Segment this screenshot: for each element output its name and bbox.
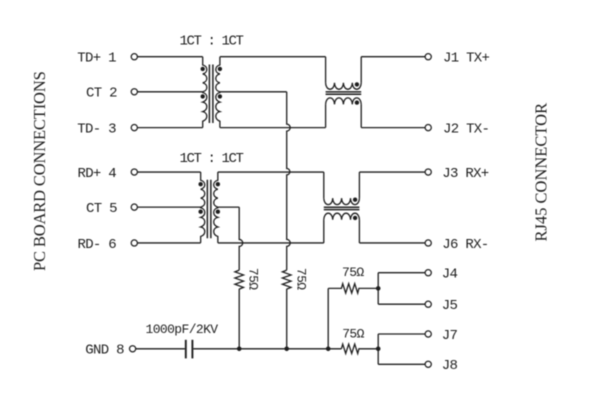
T1 primary phase dot (top) <box>201 67 205 71</box>
L2 top-left vertical <box>323 172 325 198</box>
terminal circles <box>130 54 432 368</box>
svg-text:1CT : 1CT: 1CT : 1CT <box>180 34 244 50</box>
wire choke L1 bottom-right to J2 <box>361 127 425 129</box>
wire CT pin5 to T2 primary center tap <box>137 206 200 208</box>
L1 top winding <box>326 83 362 90</box>
svg-text:TD+ 1: TD+ 1 <box>77 51 116 67</box>
svg-text:TD- 3: TD- 3 <box>77 121 116 137</box>
L1 bottom-right vertical <box>360 104 362 127</box>
junction R3/J4-J5 bracket <box>376 286 381 291</box>
terminal J6 <box>425 240 431 246</box>
T2 primary phase dot (top) <box>198 182 202 186</box>
resistor R4 75ohm horizontal on GND rail <box>341 344 378 353</box>
T1 core <box>209 65 213 124</box>
junction dots <box>237 286 381 351</box>
svg-text:1CT : 1CT: 1CT : 1CT <box>180 151 244 167</box>
T2 secondary phase dot (lower section) <box>216 210 220 214</box>
terminal pin3 <box>131 125 137 131</box>
wire capacitor C1 to GND rail junctions <box>193 348 341 350</box>
svg-text:RJ45 CONNECTOR: RJ45 CONNECTOR <box>531 103 550 242</box>
wire R2 bottom to GND rail <box>238 289 240 349</box>
T2 primary winding <box>201 172 205 243</box>
wire CT pin2 to T1 primary center tap <box>137 91 202 93</box>
resistor R1 75ohm vertical zigzag <box>282 270 291 289</box>
L1 bottom winding phase dot <box>355 100 359 104</box>
wire R3 left vertical to GND rail <box>327 288 329 348</box>
wire T1 secondary top to choke L1 top-left <box>220 56 326 58</box>
L1 top-right vertical <box>360 57 362 83</box>
resistor R3 75ohm horizontal with leads <box>328 284 378 293</box>
svg-text:75Ω: 75Ω <box>294 268 309 290</box>
terminal pin5 <box>131 204 137 210</box>
wire T1 secondary center tap right <box>220 91 287 93</box>
wire bracket J7-J8 <box>377 334 379 364</box>
svg-text:J1 TX+: J1 TX+ <box>443 51 490 67</box>
svg-text:J3 RX+: J3 RX+ <box>442 166 489 182</box>
terminal pin8 GND <box>130 346 136 352</box>
svg-text:J6 RX-: J6 RX- <box>442 237 488 253</box>
terminal pin2 <box>131 89 137 95</box>
terminal J8 <box>425 361 431 367</box>
wire GND pin8 to capacitor C1 <box>136 348 185 350</box>
L2 core <box>324 207 360 209</box>
terminal pin4 <box>131 169 137 175</box>
T1 secondary phase dot (top) <box>218 67 222 71</box>
junction R4/J7-J8 bracket <box>376 347 381 352</box>
L2 bottom winding phase dot <box>353 216 357 220</box>
wire RD+ pin4 to T2 primary top <box>137 171 200 173</box>
wire T2 secondary center tap right <box>218 206 239 208</box>
T2 primary phase dot (lower section) <box>198 210 202 214</box>
common-mode choke L1 <box>326 57 362 128</box>
svg-text:J4: J4 <box>442 267 458 283</box>
svg-text:GND 8: GND 8 <box>85 343 124 359</box>
L2 top winding <box>324 198 360 205</box>
wire choke L1 top-right to J1 <box>361 56 425 58</box>
L1 top-left vertical <box>325 57 327 83</box>
terminal J7 <box>425 331 431 337</box>
svg-text:PC BOARD CONNECTIONS: PC BOARD CONNECTIONS <box>30 71 49 271</box>
transformer T1 <box>203 57 220 128</box>
L2 bottom-right vertical <box>358 220 360 243</box>
svg-text:RD- 6: RD- 6 <box>78 237 117 253</box>
L1 top winding phase dot <box>355 82 359 86</box>
wire T2 secondary top to choke L2 top-left <box>218 171 324 173</box>
L2 top-right vertical <box>358 172 360 198</box>
wire J4 stub <box>378 272 425 274</box>
T1 primary winding <box>203 57 207 128</box>
terminal J2 <box>425 125 431 131</box>
wire bracket J4-J5 <box>377 273 379 305</box>
terminal J3 <box>425 169 431 175</box>
capacitor C1 1000pF/2KV plates <box>186 340 193 359</box>
L1 bottom winding <box>326 98 362 105</box>
wire T1 center-tap vertical with hops <box>287 92 291 270</box>
wire J7 stub <box>378 333 425 335</box>
svg-text:J8: J8 <box>442 358 458 374</box>
T1 secondary phase dot (lower section) <box>218 94 222 98</box>
junction R1/GND <box>284 347 289 352</box>
terminal J1 <box>425 54 431 60</box>
junction R2/GND <box>237 347 242 352</box>
resistor R2 75ohm vertical zigzag <box>235 270 244 289</box>
wire choke L2 top-right to J3 <box>359 171 425 173</box>
wire T2 secondary bottom to choke L2 bottom-left <box>218 242 324 244</box>
svg-text:J7: J7 <box>442 328 458 344</box>
common-mode choke L2 <box>324 172 360 243</box>
terminal J4 <box>425 270 431 276</box>
wire J5 stub <box>378 303 425 305</box>
svg-text:1000pF/2KV: 1000pF/2KV <box>146 322 219 337</box>
svg-text:J2 TX-: J2 TX- <box>443 121 489 137</box>
terminal pin1 <box>131 54 137 60</box>
wire T1 secondary bottom to choke L1 bottom-left <box>220 127 326 129</box>
T1 secondary winding <box>216 57 220 128</box>
terminal J5 <box>425 301 431 307</box>
wire RD- pin6 to T2 primary bottom <box>137 242 200 244</box>
wire TD- pin3 to T1 primary bottom <box>137 127 202 129</box>
wire TD+ pin1 to T1 primary top <box>137 56 202 58</box>
svg-text:J5: J5 <box>442 298 458 314</box>
L2 bottom-left vertical <box>323 220 325 243</box>
L2 bottom winding <box>324 213 360 220</box>
svg-text:RD+ 4: RD+ 4 <box>78 166 117 182</box>
T1 primary phase dot (lower section) <box>201 94 205 98</box>
svg-text:CT 5: CT 5 <box>86 201 117 217</box>
T2 secondary winding <box>214 172 218 243</box>
L1 bottom-left vertical <box>325 104 327 127</box>
svg-text:75Ω: 75Ω <box>246 268 261 290</box>
transformer T2 <box>198 172 220 243</box>
wire T2 center-tap vertical with hop <box>239 207 243 270</box>
wire choke L2 bottom-right to J6 <box>359 242 425 244</box>
wire R1 bottom to GND rail <box>286 289 288 349</box>
T2 core <box>207 180 211 239</box>
junction R3-vertical/GND <box>326 347 331 352</box>
L2 top winding phase dot <box>353 198 357 202</box>
L1 core <box>326 92 362 94</box>
wire J8 stub <box>378 363 425 365</box>
terminal pin6 <box>131 240 137 246</box>
svg-text:75Ω: 75Ω <box>342 326 364 341</box>
svg-text:75Ω: 75Ω <box>342 265 364 280</box>
svg-text:CT 2: CT 2 <box>86 86 117 102</box>
T2 secondary phase dot (top) <box>216 182 220 186</box>
